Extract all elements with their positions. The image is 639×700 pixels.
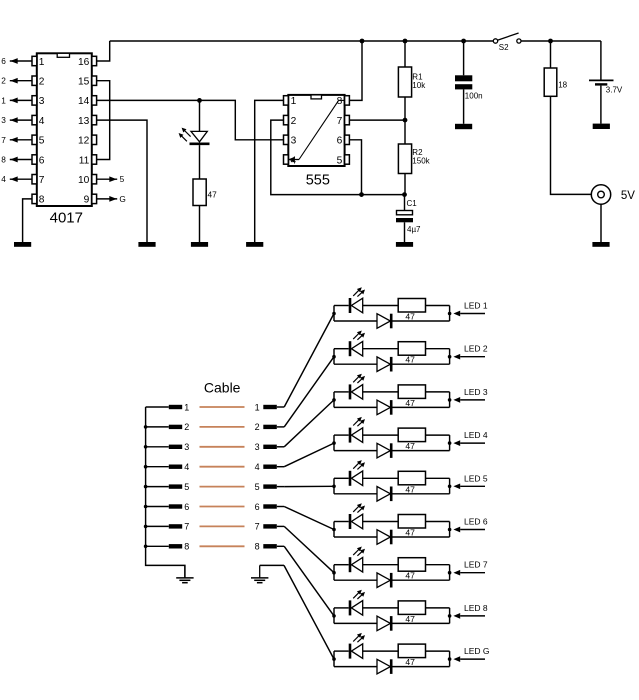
chain 7 left wire — [332, 565, 349, 581]
diode chain 3 — [334, 400, 450, 415]
resistor R2 150k — [398, 144, 430, 174]
4017 pin9 arrow G — [97, 194, 126, 204]
svg-text:47: 47 — [405, 312, 415, 322]
LED chain LED 3 — [332, 374, 488, 415]
svg-text:6: 6 — [337, 136, 343, 147]
wire resistor to right chain 8 — [426, 608, 452, 624]
resistor 47 chain 8 — [398, 601, 425, 624]
svg-text:8: 8 — [184, 542, 189, 552]
resistor 47 chain 4 — [398, 428, 425, 451]
wire J2 pin 7 to LED chain 7 — [284, 526, 334, 572]
connector J2 pin 1 — [255, 402, 285, 412]
cable wire 8 — [200, 545, 245, 547]
svg-text:G: G — [119, 194, 125, 204]
connector J2 pin 6 — [255, 502, 285, 512]
connector J2 pin 2 — [255, 422, 285, 432]
LED chain LED G — [332, 633, 489, 674]
cable wire 2 — [200, 426, 245, 428]
wire resistor to right chain 3 — [426, 392, 452, 408]
battery BT1 3.7V — [589, 80, 623, 123]
LED (emitting) chain 4 — [350, 417, 365, 443]
label Cable — [204, 380, 241, 396]
ground (J2) — [251, 565, 268, 582]
input arrow LED 8 — [453, 603, 487, 619]
ground (C2) — [455, 124, 472, 129]
wire LED to resistor chain 7 — [363, 564, 399, 566]
4017 pin 6 output arrow 8 — [1, 155, 32, 165]
LED (emitting) chain 1 — [350, 287, 365, 313]
IC U1 4017 body — [37, 53, 92, 206]
svg-text:2: 2 — [39, 77, 45, 88]
wire resistor to right chain 7 — [426, 565, 452, 581]
wire resistor to right chain 6 — [426, 522, 452, 538]
label 555 — [306, 172, 330, 188]
svg-text:14: 14 — [78, 96, 90, 107]
4017 pin 4 output arrow 3 — [1, 115, 32, 125]
wire 555 pin2 to C1 node — [271, 120, 405, 195]
wire LED to resistor chain 2 — [363, 348, 399, 350]
diode chain 2 — [334, 357, 450, 372]
resistor R4 18 — [544, 68, 567, 96]
svg-text:5: 5 — [337, 155, 343, 166]
svg-text:8: 8 — [337, 96, 343, 107]
svg-text:LED 2: LED 2 — [464, 344, 488, 354]
LED chain LED 8 — [332, 590, 488, 631]
4017 pin boxes — [32, 56, 97, 203]
svg-text:LED 8: LED 8 — [464, 603, 488, 613]
LED (emitting) chain 3 — [350, 374, 365, 400]
wire J2 pin 8 to LED chain 8 — [284, 546, 334, 616]
wire LED to resistor chain 1 — [363, 305, 399, 307]
diode chain 4 — [334, 443, 450, 458]
input arrow LED 3 — [453, 387, 487, 403]
svg-text:1: 1 — [255, 402, 260, 412]
svg-text:LED 6: LED 6 — [464, 517, 488, 527]
wire LED to resistor chain 8 — [363, 607, 399, 609]
svg-text:1: 1 — [184, 402, 189, 412]
junction pin7/R1/R2 — [403, 118, 408, 123]
capacitor C1 4u7 — [396, 195, 421, 242]
svg-text:5: 5 — [39, 136, 45, 147]
chain 1 left wire — [332, 306, 349, 322]
svg-text:6: 6 — [39, 155, 45, 166]
diode chain 6 — [334, 530, 450, 545]
svg-text:18: 18 — [558, 81, 567, 90]
wire J2 ground to LED chain G — [284, 565, 334, 659]
svg-text:7: 7 — [1, 135, 6, 145]
chain 3 left wire — [332, 392, 349, 408]
input arrow LED G — [453, 646, 489, 662]
svg-text:3: 3 — [1, 115, 6, 125]
connector X1 5V — [591, 185, 635, 204]
wire resistor to right chain 9 — [426, 651, 452, 667]
wire jack to ground — [600, 204, 602, 242]
resistor 47 chain 9 — [398, 644, 425, 667]
svg-text:3: 3 — [291, 136, 297, 147]
connector J1 pin 2 — [146, 422, 190, 432]
switch S2 — [493, 33, 521, 52]
svg-text:1: 1 — [1, 95, 6, 105]
svg-text:47: 47 — [208, 190, 218, 200]
wire 4017 pin13 to ground — [97, 120, 147, 242]
chain 2 left wire — [332, 349, 349, 365]
svg-text:10k: 10k — [412, 81, 426, 90]
wire LED to resistor chain 4 — [363, 434, 399, 436]
LED chain LED 7 — [332, 547, 488, 588]
resistor R1 10k — [398, 67, 426, 97]
wire pin7 node to R2 — [404, 120, 406, 144]
4017 pin 5 output arrow 7 — [1, 135, 32, 145]
svg-text:10: 10 — [78, 175, 90, 186]
connector J1 pin 7 — [146, 522, 190, 532]
wire 555 pin1 to ground — [255, 100, 284, 242]
wire J2 ground — [260, 564, 284, 566]
svg-text:1: 1 — [291, 96, 297, 107]
svg-text:100n: 100n — [465, 92, 483, 101]
wire power rail right — [521, 40, 601, 42]
ground (4017 pin13) — [138, 242, 155, 247]
connector J2 pin 4 — [255, 462, 285, 472]
resistor 47 chain 2 — [398, 342, 425, 365]
svg-text:47: 47 — [405, 398, 415, 408]
svg-text:47: 47 — [405, 355, 415, 365]
svg-text:5: 5 — [120, 174, 125, 184]
4017 pin numbers — [39, 57, 90, 206]
input arrow LED 1 — [453, 301, 487, 317]
input arrow LED 2 — [453, 344, 487, 360]
input arrow LED 6 — [453, 517, 487, 533]
svg-text:47: 47 — [405, 571, 415, 581]
svg-text:3: 3 — [184, 442, 189, 452]
junctions J1 bus — [144, 425, 148, 548]
wire resistor to right chain 1 — [426, 306, 452, 322]
wire R1 to pin7 node — [404, 97, 406, 120]
wire J1 ground bus — [146, 407, 185, 578]
svg-text:47: 47 — [405, 484, 415, 494]
4017 pin 1 output arrow 6 — [1, 56, 32, 66]
svg-text:LED 4: LED 4 — [464, 430, 488, 440]
connector J1 pin 6 — [146, 502, 190, 512]
LED D1 indicator — [179, 100, 210, 143]
cable wire 7 — [200, 525, 245, 527]
svg-text:7: 7 — [39, 175, 45, 186]
cable wire 4 — [200, 466, 245, 468]
ground (J1) — [176, 565, 193, 582]
ground (battery) — [593, 124, 610, 129]
svg-text:6: 6 — [184, 502, 189, 512]
svg-text:LED 7: LED 7 — [464, 560, 488, 570]
connector J1 pin 1 — [146, 402, 190, 412]
wire J2 pin 2 to LED chain 2 — [284, 357, 334, 427]
resistor 47 chain 1 — [398, 299, 425, 322]
resistor 47 chain 3 — [398, 385, 425, 408]
svg-text:47: 47 — [405, 614, 415, 624]
svg-text:LED 3: LED 3 — [464, 387, 488, 397]
junction rail/R4 — [548, 39, 553, 44]
svg-text:C1: C1 — [407, 199, 418, 208]
svg-text:555: 555 — [306, 172, 330, 188]
svg-text:LED 1: LED 1 — [464, 301, 488, 311]
svg-text:LED 5: LED 5 — [464, 473, 488, 483]
4017 pin10 arrow 5 — [97, 174, 125, 184]
label 4017 — [50, 210, 83, 227]
4017 pin 2 output arrow 2 — [1, 76, 32, 86]
chain 9 left wire — [332, 651, 349, 667]
svg-text:4: 4 — [255, 462, 260, 472]
LED chain LED 5 — [332, 460, 488, 501]
wire resistor to right chain 4 — [426, 435, 452, 451]
svg-text:4: 4 — [184, 462, 189, 472]
svg-text:3: 3 — [255, 442, 260, 452]
svg-text:12: 12 — [78, 136, 90, 147]
wire 4017 pin16 to rail — [97, 41, 110, 61]
cable wire 6 — [200, 506, 245, 508]
wire D1 cathode to R3 — [199, 145, 201, 179]
svg-text:6: 6 — [1, 56, 6, 66]
svg-text:7: 7 — [255, 522, 260, 532]
svg-text:150k: 150k — [412, 157, 430, 166]
ground (4017 pin8) — [14, 242, 31, 247]
chain 6 left wire — [332, 522, 349, 538]
connector J2 pin 7 — [255, 522, 285, 532]
diode chain 9 — [334, 659, 450, 674]
svg-text:3: 3 — [39, 96, 45, 107]
svg-text:5: 5 — [184, 482, 189, 492]
svg-text:7: 7 — [337, 116, 343, 127]
cable wire 3 — [200, 446, 245, 448]
wire R4 to jack — [551, 96, 592, 194]
svg-text:9: 9 — [84, 195, 90, 206]
svg-text:2: 2 — [291, 116, 297, 127]
4017 pin 3 output arrow 1 — [1, 95, 32, 105]
svg-text:6: 6 — [255, 502, 260, 512]
wire R2 to C1 node — [404, 174, 406, 195]
diode chain 5 — [334, 487, 450, 502]
input arrow LED 7 — [453, 560, 487, 576]
LED (emitting) chain 5 — [350, 460, 365, 486]
wire LED to resistor chain 3 — [363, 391, 399, 393]
wire power rail left — [110, 40, 494, 42]
junction rail/R1 — [403, 39, 408, 44]
ground (555 pin1) — [246, 242, 263, 247]
svg-text:2: 2 — [184, 422, 189, 432]
chain 4 left wire — [332, 435, 349, 451]
svg-text:47: 47 — [405, 528, 415, 538]
svg-text:3.7V: 3.7V — [606, 86, 623, 95]
connector J2 pin 8 — [255, 542, 285, 552]
svg-text:7: 7 — [184, 522, 189, 532]
input arrow LED 5 — [453, 473, 487, 489]
LED chain LED 2 — [332, 331, 488, 372]
555 pin numbers — [291, 96, 343, 166]
LED chain LED 4 — [332, 417, 488, 458]
junction pin6/pin2 wire — [359, 192, 364, 197]
wire LED to resistor chain 6 — [363, 521, 399, 523]
svg-text:Cable: Cable — [204, 380, 241, 396]
svg-text:11: 11 — [79, 155, 90, 166]
resistor R3 47 — [193, 179, 217, 206]
diode chain 7 — [334, 573, 450, 588]
wire J2 pin 4 to LED chain 4 — [284, 443, 334, 467]
wire J2 pin 3 to LED chain 3 — [284, 400, 334, 447]
wire 4017 pin14 to 555 pin3 — [97, 100, 284, 139]
4017 pin 7 output arrow 4 — [1, 174, 32, 184]
svg-text:4: 4 — [291, 155, 297, 166]
junction pin14/LED — [197, 98, 202, 103]
svg-text:16: 16 — [78, 57, 90, 68]
IC U2 555 body — [288, 95, 344, 166]
connector J1 pin 3 — [146, 442, 190, 452]
555 internal link pin4-pin8 — [288, 100, 345, 162]
svg-text:15: 15 — [78, 77, 90, 88]
resistor 47 chain 7 — [398, 558, 425, 581]
svg-text:2: 2 — [1, 76, 6, 86]
svg-text:47: 47 — [405, 657, 415, 667]
svg-text:S2: S2 — [499, 43, 509, 52]
connector J2 pin 5 — [255, 482, 285, 492]
svg-text:8: 8 — [39, 195, 45, 206]
diode chain 1 — [334, 314, 450, 329]
svg-text:5: 5 — [255, 482, 260, 492]
wire rail to R4 — [550, 41, 552, 68]
connector J1 pin 5 — [146, 482, 190, 492]
wire J2 pin 6 to LED chain 6 — [284, 507, 334, 530]
capacitor C2 100n — [455, 41, 483, 124]
ground (C1) — [396, 242, 413, 247]
connector J1 pin 8 — [146, 542, 190, 552]
wire resistor to right chain 2 — [426, 349, 452, 365]
ground (5V jack) — [592, 242, 609, 247]
svg-text:47: 47 — [405, 441, 415, 451]
chain 5 left wire — [332, 478, 349, 494]
LED (emitting) chain 6 — [350, 503, 365, 529]
wire resistor to right chain 5 — [426, 478, 452, 494]
svg-text:4017: 4017 — [50, 210, 83, 227]
ground (R3) — [191, 242, 208, 247]
wire rail to R1 — [404, 41, 406, 67]
cable wire 1 — [200, 406, 245, 408]
wire 4017 pin8 to ground — [23, 199, 32, 242]
LED (emitting) chain 7 — [350, 547, 365, 573]
wire LED to resistor chain 9 — [363, 650, 399, 652]
wire 555 pin7 to R1/R2 — [349, 119, 405, 121]
chain 8 left wire — [332, 608, 349, 624]
wire J2 pin 1 to LED chain 1 — [284, 314, 334, 408]
svg-text:4µ7: 4µ7 — [407, 225, 421, 234]
svg-text:R1: R1 — [412, 73, 423, 82]
wire R3 to ground — [199, 206, 201, 243]
LED (emitting) chain 9 — [350, 633, 365, 659]
junction rail/pin8 — [360, 39, 365, 44]
svg-text:8: 8 — [1, 155, 6, 165]
connector J2 pin 3 — [255, 442, 285, 452]
diode chain 8 — [334, 616, 450, 631]
resistor 47 chain 6 — [398, 515, 425, 538]
LED (emitting) chain 8 — [350, 590, 365, 616]
resistor 47 chain 5 — [398, 471, 425, 494]
LED chain LED 1 — [332, 287, 488, 328]
wire 555 pin8 to rail — [349, 41, 362, 100]
wire 555 pin6 down — [349, 140, 361, 195]
wire LED to resistor chain 5 — [363, 477, 399, 479]
wire J2 pin 5 to LED chain 5 — [284, 485, 334, 487]
cable wire 5 — [200, 486, 245, 488]
svg-text:1: 1 — [39, 57, 45, 68]
svg-text:LED G: LED G — [464, 646, 490, 656]
LED (emitting) chain 2 — [350, 331, 365, 357]
LED chain LED 6 — [332, 503, 488, 544]
svg-text:5V: 5V — [621, 190, 635, 202]
555 pin boxes — [284, 96, 350, 165]
input arrow LED 4 — [453, 430, 487, 446]
svg-text:4: 4 — [39, 116, 45, 127]
junction rail/C2 — [461, 39, 466, 44]
connector J1 pin 4 — [146, 462, 190, 472]
wire rail to battery — [600, 41, 602, 80]
wire 4017 pin15 to pin11 — [97, 81, 110, 160]
svg-text:8: 8 — [255, 542, 260, 552]
junction C1 node — [402, 192, 407, 197]
svg-text:4: 4 — [1, 174, 6, 184]
svg-text:2: 2 — [255, 422, 260, 432]
svg-text:13: 13 — [78, 116, 90, 127]
